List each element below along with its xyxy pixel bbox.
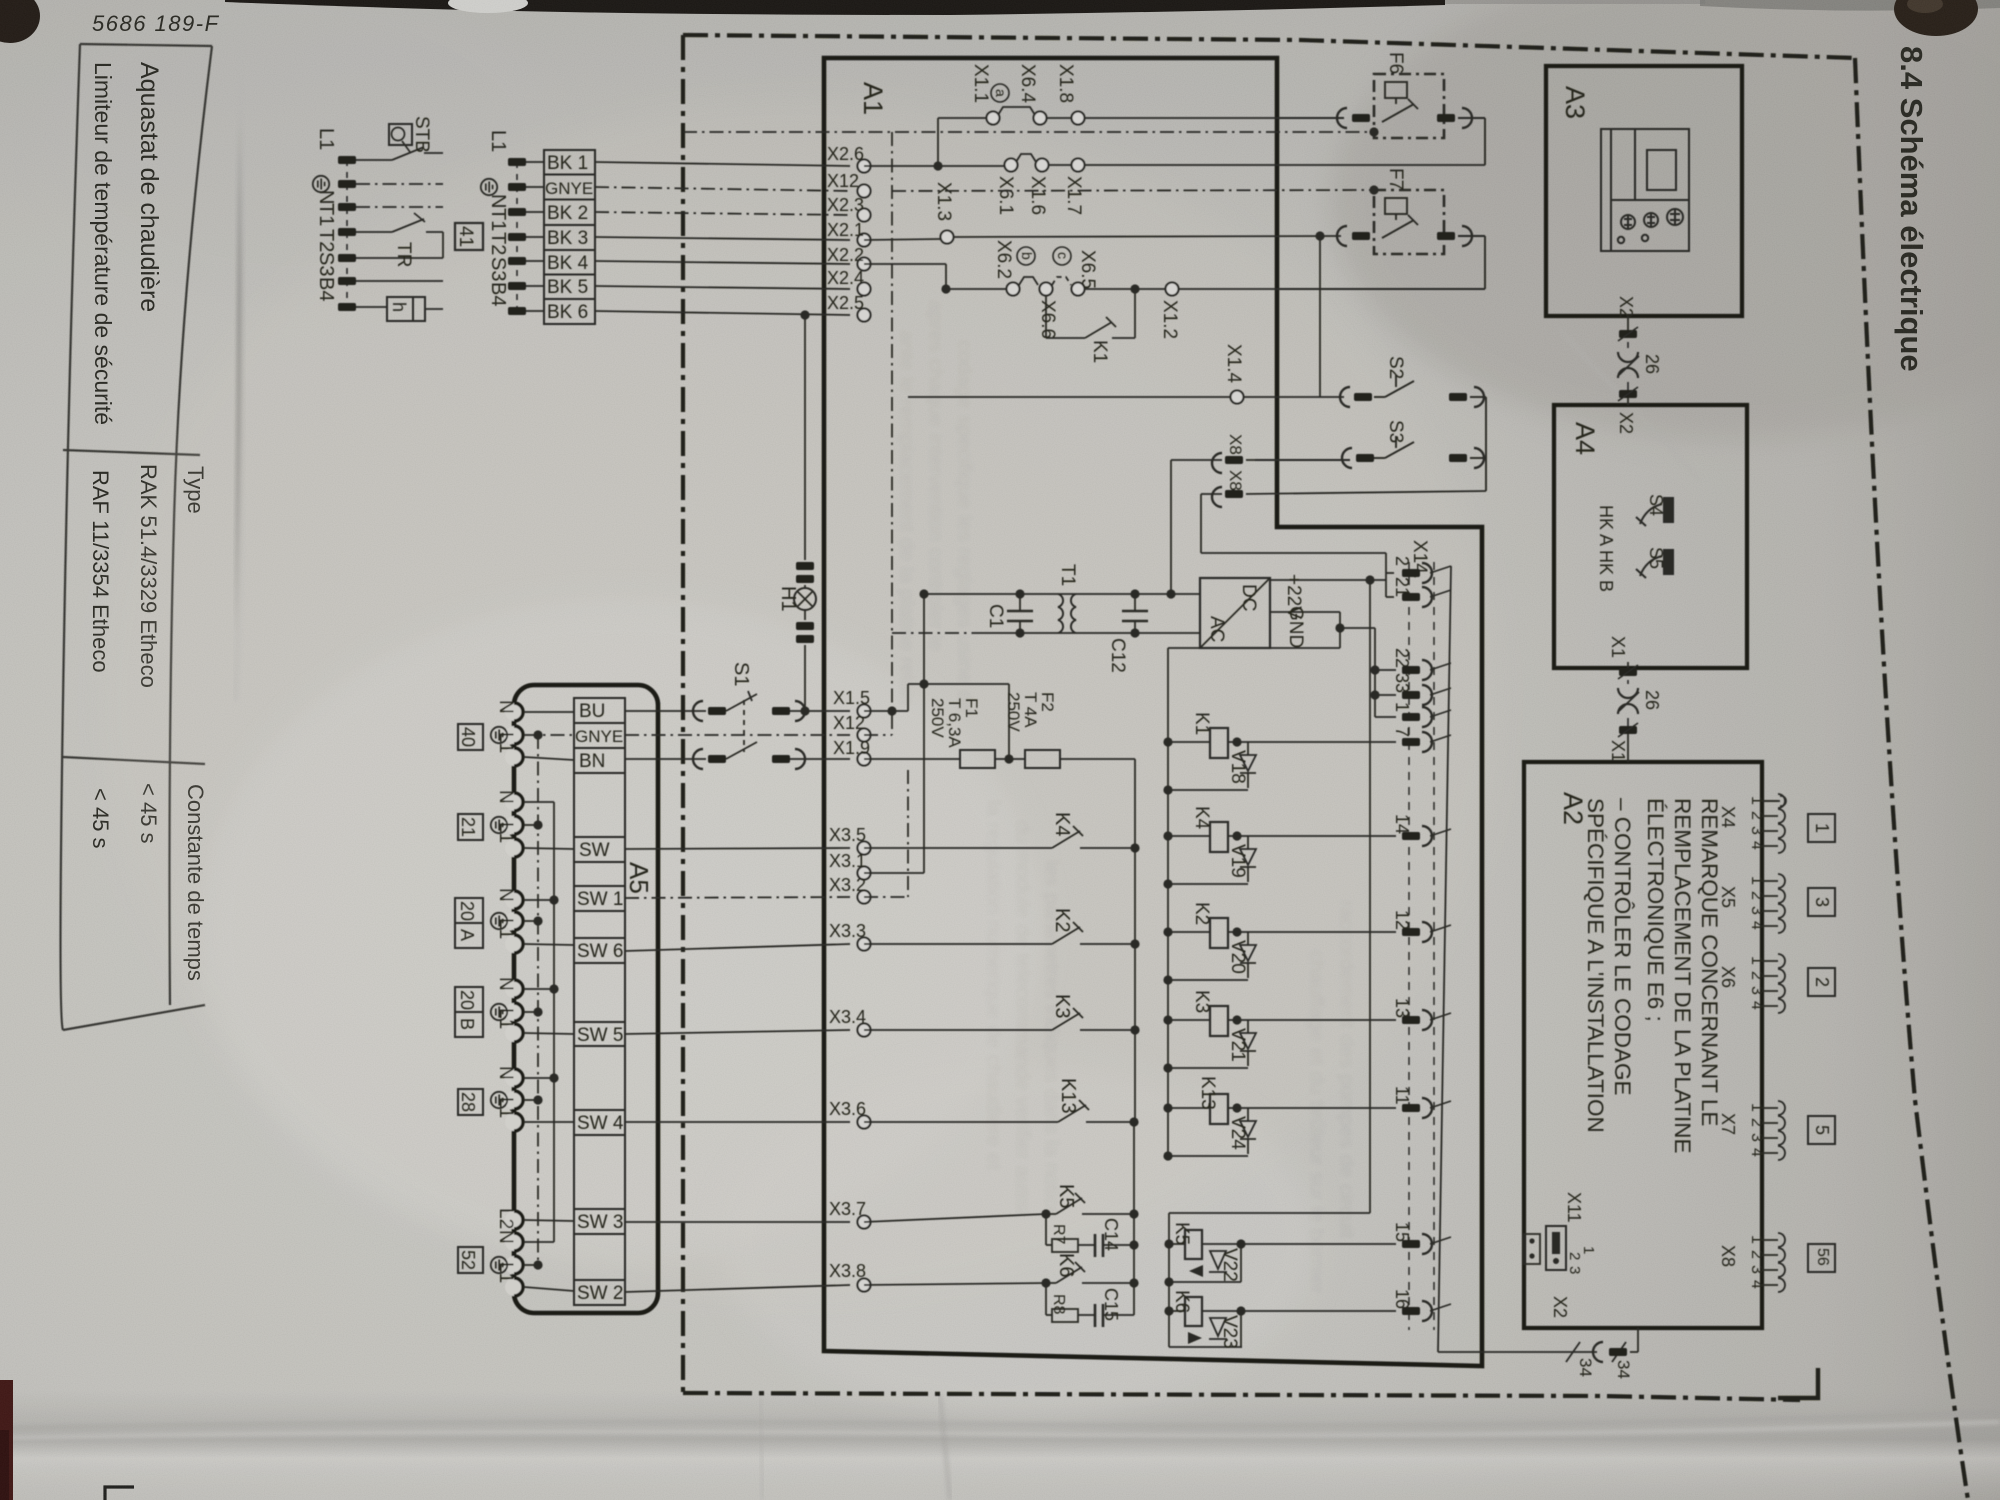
svg-text:4: 4 (1748, 921, 1765, 930)
svg-text:26: 26 (1642, 690, 1662, 710)
BN row to X1.9 with S1 pole 2 (625, 758, 706, 760)
S2 contact (1374, 375, 1486, 491)
SW cell column in A5 (574, 698, 625, 1305)
relay coil K4 (1168, 835, 1210, 837)
svg-text:SW: SW (579, 840, 610, 861)
row X2.1 / X1.3 to F7 (864, 236, 1341, 240)
X14 pin 22 (1402, 666, 1420, 674)
svg-text:X8: X8 (1226, 470, 1245, 491)
svg-text:K2: K2 (1191, 902, 1212, 925)
svg-text:SW 2: SW 2 (577, 1283, 623, 1304)
diode V20 (1240, 932, 1256, 978)
svg-text:K3: K3 (1191, 990, 1212, 1013)
svg-text:– CONTRÔLER LE CODAGE: – CONTRÔLER LE CODAGE (1610, 798, 1635, 1096)
warm tint center (100, 100, 1500, 1300)
terminal X2.5 (858, 309, 871, 322)
svg-text:X1: X1 (1608, 740, 1628, 762)
+22V / GND outputs (1168, 573, 1396, 717)
wire: N bus in A5 (553, 802, 555, 1242)
relay contacts K4 K2 K3 K13 on X3 rows (864, 826, 1135, 1122)
svg-text:5: 5 (1812, 1125, 1832, 1135)
wire: PE riser X12 (891, 132, 893, 735)
A3 box (1546, 66, 1742, 316)
svg-text:BN: BN (579, 751, 605, 772)
svg-text:K4: K4 (1051, 812, 1073, 836)
svg-text:33: 33 (1392, 673, 1412, 693)
dashed connector boundary (1408, 562, 1410, 1330)
svg-text:28: 28 (458, 1092, 478, 1112)
svg-text:41: 41 (455, 226, 476, 247)
A2 box (1524, 762, 1762, 1328)
terminal X3.8 (858, 1279, 871, 1292)
K6 contact + R8/C15 on X3.8 row (864, 1262, 1134, 1327)
svg-text:SW 6: SW 6 (577, 941, 623, 962)
svg-text:X1.3: X1.3 (933, 182, 954, 221)
X14 pin 7 (1402, 738, 1420, 746)
boxed plug ids 1 3 2 5 56 (1808, 814, 1835, 1272)
svg-text:T1: T1 (315, 203, 337, 226)
svg-text:3: 3 (1748, 906, 1765, 915)
svg-text:ÉLECTRONIQUE E6 ;: ÉLECTRONIQUE E6 ; (1643, 798, 1668, 1022)
svg-text:a: a (993, 89, 1009, 97)
svg-text:1: 1 (1748, 796, 1765, 805)
svg-text:X12: X12 (827, 171, 859, 191)
S1 mechanical link (743, 700, 745, 752)
relay coil K1 (1168, 741, 1210, 743)
terminal X1.5 (858, 705, 871, 718)
terminal X3.3 (858, 938, 871, 951)
svg-text:REMARQUE CONCERNANT LE: REMARQUE CONCERNANT LE (1697, 798, 1722, 1126)
terminal X1.3 (941, 231, 954, 244)
X3.1 riser to AC rail (864, 872, 924, 874)
svg-text:X3.7: X3.7 (829, 1199, 866, 1219)
row X2.6 to X1.1 jog and X6.1 (864, 107, 1485, 166)
resistor R8 + capacitor C15 branch (1045, 1283, 1047, 1315)
svg-text:X7: X7 (1718, 1113, 1738, 1135)
terminal X3.6 (858, 1116, 871, 1129)
diode V18 (1240, 742, 1256, 788)
svg-text:X6.5: X6.5 (1077, 250, 1098, 289)
cable bundle dashed (346, 160, 348, 307)
svg-text:SW 4: SW 4 (577, 1113, 624, 1134)
A2 connector combs X4..X8 (1762, 796, 1786, 806)
svg-text:T1: T1 (487, 208, 509, 231)
svg-text:11: 11 (1392, 1086, 1412, 1105)
X8 X8 board connectors (1171, 460, 1486, 594)
svg-text:X3.4: X3.4 (829, 1007, 866, 1027)
svg-text:S4: S4 (1646, 494, 1666, 516)
svg-text:V21: V21 (1227, 1028, 1248, 1062)
svg-text:21: 21 (1392, 577, 1412, 597)
svg-text:2: 2 (1566, 1252, 1583, 1260)
svg-text:SW 3: SW 3 (577, 1212, 623, 1233)
svg-text:BK 3: BK 3 (547, 228, 588, 249)
svg-text:V23: V23 (1219, 1315, 1240, 1349)
F1 fuse (960, 750, 995, 768)
svg-text:K3: K3 (1051, 994, 1073, 1018)
svg-text:X2.5: X2.5 (827, 293, 864, 313)
creases (0, 1412, 2000, 1428)
hour counter h (387, 297, 413, 321)
svg-text:2: 2 (1748, 1118, 1765, 1127)
svg-text:N: N (495, 700, 516, 714)
A3 control unit face (1601, 129, 1689, 251)
svg-text:S3: S3 (487, 257, 509, 281)
svg-text:A1: A1 (858, 82, 888, 115)
svg-text:X4: X4 (1718, 806, 1738, 828)
svg-text:16: 16 (1392, 1289, 1412, 1309)
svg-text:S1: S1 (730, 662, 752, 686)
svg-text:X3.6: X3.6 (829, 1099, 866, 1119)
S3 contact (1255, 436, 1486, 460)
comb pin digits 1 2 3 4 (1748, 796, 1765, 1289)
svg-text:X1.4: X1.4 (1223, 344, 1244, 384)
svg-text:X8: X8 (1226, 434, 1245, 455)
svg-text:GND: GND (1285, 606, 1306, 648)
svg-text:F6: F6 (1385, 52, 1406, 74)
svg-text:7: 7 (1392, 727, 1412, 737)
svg-text:X1.8: X1.8 (1055, 64, 1076, 103)
svg-text:3: 3 (1748, 826, 1765, 835)
relay contact K3 (864, 1029, 1052, 1031)
svg-text:L1: L1 (315, 128, 337, 150)
svg-text:2: 2 (1748, 971, 1765, 980)
svg-text:X1.9: X1.9 (833, 738, 870, 758)
svg-text:20: 20 (457, 901, 477, 921)
wire: GND rail for relay coils (1167, 648, 1169, 1156)
box 41 (455, 223, 483, 250)
svg-text:N: N (495, 977, 516, 991)
svg-text:X2.2: X2.2 (827, 245, 864, 265)
diode V19 (1240, 836, 1256, 882)
terminal X3.1 (858, 867, 871, 880)
svg-text:56: 56 (1814, 1248, 1831, 1266)
svg-text:2: 2 (1748, 1250, 1765, 1259)
resistor R7 + capacitor C14 branch (1045, 1214, 1047, 1245)
svg-text:c: c (1055, 252, 1071, 259)
terminal X12 (lower) (858, 729, 871, 742)
X14 pin 15 (1402, 1240, 1420, 1248)
svg-text:T2: T2 (315, 229, 337, 252)
svg-text:4: 4 (1748, 1280, 1765, 1289)
X3.2 dash-dot riser (864, 896, 908, 898)
A5 edge scallop terminals (505, 703, 523, 1296)
svg-text:F7: F7 (1385, 168, 1406, 190)
svg-text:1: 1 (1392, 702, 1412, 712)
svg-text:4: 4 (1748, 841, 1765, 850)
svg-text:N: N (487, 194, 509, 208)
outer phantom dash-dot border (683, 35, 1968, 1500)
svg-text:T1: T1 (1057, 564, 1078, 586)
K1 contact below (1045, 296, 1047, 338)
terminal pins L1..B4 (338, 156, 356, 164)
dark red table edge bottom-left (0, 1380, 13, 1500)
terminal X3.7 (858, 1216, 871, 1229)
svg-text:L2: L2 (495, 1208, 516, 1229)
wire X1.9 to F1 (864, 758, 960, 760)
svg-text:15: 15 (1392, 1222, 1412, 1242)
table bottom border (61, 44, 81, 1030)
svg-text:12: 12 (1392, 910, 1412, 930)
X14 pin 11 (1402, 1104, 1420, 1112)
svg-text:4: 4 (1748, 1148, 1765, 1157)
svg-text:34: 34 (1576, 1358, 1595, 1377)
terminal X2.6 (858, 160, 871, 173)
svg-text:K6: K6 (1055, 1253, 1077, 1277)
relay contact K2 (864, 943, 1052, 945)
svg-text:R7: R7 (1050, 1224, 1067, 1245)
SW labels (575, 701, 624, 1304)
svg-text:L1: L1 (495, 918, 516, 939)
GNYE row dash-dot to X12 (625, 734, 850, 736)
table left border (80, 44, 212, 46)
H1 lamp branch (804, 315, 806, 711)
A5 block rounded box (514, 685, 658, 1313)
wire: fused supply bus to relay contacts (1134, 759, 1136, 1122)
col divider 2 (63, 757, 205, 764)
svg-text:2: 2 (1748, 891, 1765, 900)
svg-text:TR: TR (393, 242, 414, 267)
svg-text:GNYE: GNYE (545, 179, 593, 198)
terminal X1.2 (1166, 283, 1179, 296)
connector 34 to A2 (1609, 1348, 1627, 1356)
svg-text:SW 5: SW 5 (577, 1025, 623, 1046)
table top border (170, 46, 213, 1005)
bump X6.1-X1.6 (1016, 154, 1036, 162)
svg-text:X1.6: X1.6 (1027, 176, 1048, 215)
svg-text:V19: V19 (1227, 844, 1248, 878)
svg-text:BK 5: BK 5 (547, 277, 588, 298)
svg-text:S3: S3 (1385, 420, 1406, 443)
terminal X3.4 (858, 1024, 871, 1037)
wires group1 (356, 147, 443, 309)
A5 internal wiring: PE bus + N bus (524, 712, 574, 1291)
svg-text:GNYE: GNYE (575, 727, 623, 746)
svg-text:L1: L1 (495, 732, 516, 753)
svg-text:K6: K6 (1171, 1290, 1192, 1313)
DC/AC converter U (1200, 578, 1270, 648)
X14 pin 16 (1402, 1307, 1420, 1315)
svg-text:SPÉCIFIQUE A L'INSTALLATION: SPÉCIFIQUE A L'INSTALLATION (1583, 798, 1608, 1133)
relay coil K3 (1168, 1019, 1210, 1021)
wire: +22V feed to K5/K6 (1369, 580, 1371, 1213)
svg-text:H1: H1 (777, 586, 799, 612)
svg-text:X1.7: X1.7 (1063, 176, 1084, 215)
svg-text:X1: X1 (1608, 636, 1628, 658)
svg-text:1: 1 (1812, 823, 1832, 833)
svg-text:X3.3: X3.3 (829, 921, 866, 941)
svg-text:52: 52 (458, 1250, 478, 1270)
svg-text:L1: L1 (495, 1097, 516, 1118)
terminal X12 (858, 185, 871, 198)
dark table surface along top edge (225, 0, 1445, 15)
svg-text:C12: C12 (1107, 638, 1128, 673)
terminal X3.5 (858, 842, 871, 855)
svg-text:B4: B4 (315, 277, 337, 301)
svg-text:B4: B4 (487, 282, 509, 306)
svg-text:X2: X2 (1550, 1296, 1570, 1318)
ghost bleed-through text (895, 300, 1358, 1294)
X14 pin 33 (1402, 691, 1420, 699)
svg-text:3: 3 (1566, 1266, 1583, 1274)
svg-text:X1.5: X1.5 (833, 688, 870, 708)
svg-text:BK 4: BK 4 (547, 253, 589, 274)
svg-text:X6.1: X6.1 (995, 176, 1016, 215)
diode V24 (1240, 1108, 1256, 1154)
X14 pin 21 (1402, 593, 1420, 601)
svg-text:N: N (495, 790, 516, 804)
svg-text:V22: V22 (1219, 1248, 1240, 1282)
X12 PE dash-dot riser (864, 734, 892, 736)
svg-text:250V: 250V (1004, 692, 1023, 732)
bump X1.1-X6.4 (998, 107, 1035, 115)
svg-text:X6.2: X6.2 (993, 240, 1014, 279)
K5 contact + R7/C14 on X3.7 row (864, 1193, 1134, 1257)
svg-text:3: 3 (1748, 1265, 1765, 1274)
svg-text:34: 34 (1614, 1360, 1633, 1379)
svg-text:1: 1 (1748, 1103, 1765, 1112)
svg-text:4: 4 (1748, 1001, 1765, 1010)
svg-text:STB: STB (411, 116, 432, 153)
SW rows to X3.x (625, 848, 850, 849)
col divider 1 (63, 450, 200, 455)
relay coil blocks K1 K4 K2 K3 K13 (1163, 712, 1396, 1161)
svg-text:X2.1: X2.1 (827, 220, 864, 240)
X14 pin 13 (1402, 1016, 1420, 1024)
A5 terminal labels (491, 700, 516, 1283)
capacitor C1 (1007, 594, 1033, 633)
svg-text:b: b (1019, 252, 1035, 260)
wire X1.5 jog to F1/F2 node (864, 710, 908, 712)
A1 main board box (824, 58, 1482, 1366)
svg-text:X2.4: X2.4 (827, 268, 864, 288)
svg-text:L1: L1 (487, 130, 509, 152)
harness bus (1438, 566, 1638, 1362)
svg-text:HK A HK B: HK A HK B (1596, 505, 1616, 592)
X1.4 row to S2 (908, 236, 1344, 397)
svg-text:K4: K4 (1191, 806, 1212, 830)
connector names X4..X8 (1718, 806, 1738, 1267)
svg-text:N: N (495, 888, 516, 902)
svg-text:C15: C15 (1101, 1288, 1121, 1321)
F6 fuse block (1374, 74, 1444, 138)
svg-text:14: 14 (1392, 814, 1412, 834)
svg-text:X1.1: X1.1 (970, 64, 991, 103)
svg-text:3: 3 (1748, 1133, 1765, 1142)
svg-text:L1: L1 (495, 1008, 516, 1029)
svg-text:N: N (495, 1066, 516, 1080)
svg-text:DC: DC (1238, 584, 1259, 611)
svg-text:X3.2: X3.2 (829, 875, 866, 895)
terminals X6.1 X1.6 X1.7 (1005, 159, 1018, 172)
svg-text:R8: R8 (1050, 1294, 1067, 1315)
AC rails (924, 593, 1200, 595)
STB limit thermostat (389, 124, 412, 145)
svg-text:A: A (457, 929, 477, 941)
svg-text:1: 1 (1748, 876, 1765, 885)
svg-text:22: 22 (1392, 648, 1412, 668)
punch holes (0, 0, 40, 43)
svg-text:T2: T2 (487, 232, 509, 255)
terminal X2.3 (858, 209, 871, 222)
svg-text:1: 1 (1748, 956, 1765, 965)
boxed terminal ids 40 21 20A 20B 28 52 (455, 724, 483, 1273)
X14 pin 14 (1402, 832, 1420, 840)
svg-text:h: h (389, 302, 409, 312)
svg-text:K13: K13 (1057, 1078, 1079, 1114)
terminal X2.2 (858, 258, 871, 271)
svg-text:X6: X6 (1718, 966, 1738, 988)
X14 pins (1392, 556, 1451, 1321)
terminals X6.2 X6.6 X6.5 (1007, 283, 1020, 296)
diode V21 (1240, 1020, 1256, 1066)
svg-text:V18: V18 (1227, 750, 1248, 784)
relay coil rails (1168, 580, 1370, 1347)
terminals X1.1 X6.4 X1.8 (987, 112, 1000, 125)
table text (88, 62, 208, 981)
svg-text:K5: K5 (1055, 1184, 1077, 1208)
svg-text:250V: 250V (928, 698, 947, 738)
wires BK strip to A1 X2.x terminals (595, 162, 850, 315)
F7 fuse block (1374, 190, 1444, 254)
capacitor C12 (1122, 594, 1148, 633)
terminal X2.4 (858, 283, 871, 296)
corner mark of next page bottom-left (105, 1487, 134, 1500)
svg-text:1: 1 (1748, 1235, 1765, 1244)
svg-text:3: 3 (1748, 986, 1765, 995)
svg-text:13: 13 (1392, 998, 1412, 1018)
svg-text:AC: AC (1206, 616, 1227, 642)
transformer T1 (1058, 594, 1076, 633)
svg-text:L1: L1 (495, 1262, 516, 1283)
svg-text:C1: C1 (985, 604, 1006, 628)
internal power wiring near X1.5/X1.9 (864, 132, 1200, 897)
svg-text:X6.6: X6.6 (1037, 300, 1058, 339)
table right border (63, 1005, 205, 1030)
A2 remark text (1583, 798, 1722, 1154)
svg-text:X3.8: X3.8 (829, 1261, 866, 1281)
svg-text:K1: K1 (1089, 340, 1110, 363)
svg-text:S5: S5 (1646, 547, 1666, 569)
svg-text:X6.4: X6.4 (1017, 64, 1038, 104)
svg-text:BK 2: BK 2 (547, 203, 588, 224)
svg-text:X2.6: X2.6 (827, 144, 864, 164)
paper grain (0, 0, 1, 1)
svg-text:X3.1: X3.1 (829, 851, 866, 871)
terminal X1.4 (1231, 391, 1244, 404)
svg-text:A5: A5 (624, 862, 654, 894)
X14 pin 2 (1402, 569, 1420, 577)
S1 connector pins (693, 701, 703, 721)
A4 box (1554, 405, 1747, 668)
relay contact K4 (864, 847, 1052, 849)
svg-text:S2: S2 (1385, 356, 1406, 379)
svg-text:SW 1: SW 1 (577, 889, 623, 910)
BK terminal strip box (544, 150, 595, 324)
svg-text:K1: K1 (1191, 712, 1212, 735)
relay coil K13 (1168, 1107, 1210, 1109)
svg-text:X8: X8 (1718, 1245, 1738, 1267)
terminal X2.1 (858, 234, 871, 247)
svg-text:X1.2: X1.2 (1159, 300, 1180, 339)
rows A5 -> A1 with S1 switch and H1 lamp (625, 691, 850, 1292)
K6 coil block with LED V23 (1169, 1297, 1396, 1347)
K5 coil block with LED V22 (1169, 1230, 1396, 1282)
svg-text:X2: X2 (1616, 412, 1636, 434)
svg-text:40: 40 (458, 727, 478, 747)
relay coil K2 (1168, 931, 1210, 933)
svg-text:BU: BU (579, 701, 605, 722)
